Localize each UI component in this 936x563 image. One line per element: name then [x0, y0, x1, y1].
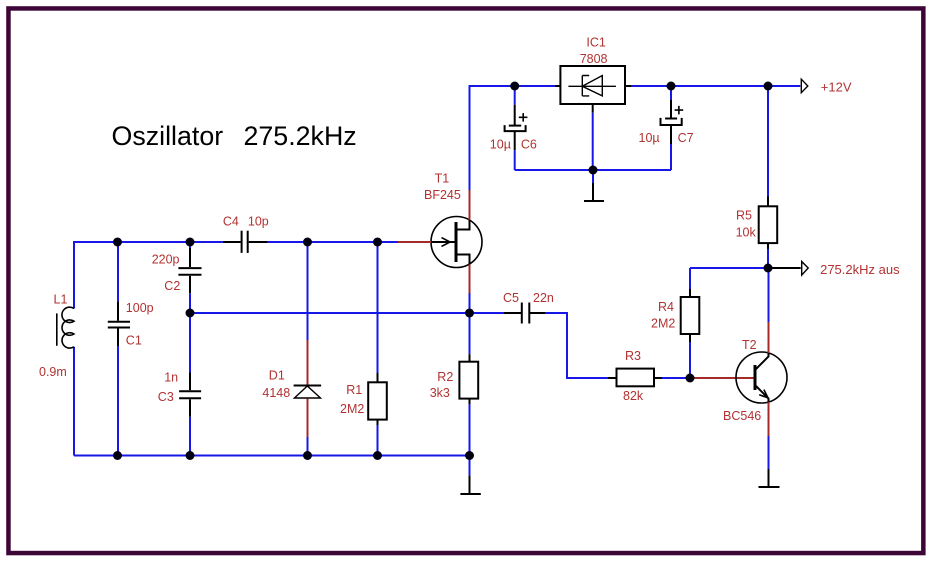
svg-text:10p: 10p [248, 215, 269, 229]
junction node C2 top [186, 238, 195, 247]
wire bottom rail [74, 455, 470, 457]
junction node R1 top [373, 238, 382, 247]
junction node C3 bottom [186, 451, 195, 460]
svg-text:D1: D1 [269, 369, 285, 383]
svg-text:L1: L1 [54, 293, 68, 307]
wire C6 C7 bottom rail [515, 169, 671, 171]
diode D1 [262, 242, 321, 456]
svg-text:BF245: BF245 [424, 188, 461, 202]
svg-text:T1: T1 [435, 172, 450, 186]
svg-text:2M2: 2M2 [340, 402, 364, 416]
svg-text:T2: T2 [742, 338, 757, 352]
capacitor C6 [490, 86, 537, 170]
svg-text:2M2: 2M2 [651, 317, 675, 331]
svg-text:R5: R5 [736, 208, 752, 222]
svg-text:R2: R2 [437, 370, 453, 384]
svg-text:BC546: BC546 [723, 409, 761, 423]
capacitor C7 [639, 86, 694, 170]
svg-text:C1: C1 [126, 334, 142, 348]
junction node IC1 ground [589, 166, 598, 175]
junction node C6 top [510, 82, 519, 91]
wire top supply rail [631, 85, 800, 87]
ground below R2 [460, 456, 480, 495]
svg-text:C6: C6 [521, 137, 537, 151]
svg-text:Oszillator: Oszillator [112, 121, 224, 151]
svg-text:C4: C4 [223, 215, 239, 229]
junction node D1 top [303, 238, 312, 247]
wire top rail right of C4 [268, 241, 398, 243]
ground below IC1 [584, 170, 604, 201]
svg-text:22n: 22n [533, 291, 554, 305]
junction node R1 bottom [373, 451, 382, 460]
svg-text:10µ: 10µ [639, 131, 660, 145]
transistor T2 BC546 [723, 322, 787, 436]
capacitor C2 [152, 242, 202, 313]
svg-text:IC1: IC1 [586, 35, 606, 49]
capacitor C3 [158, 313, 201, 456]
svg-text:0.9m: 0.9m [39, 365, 67, 379]
wire T1 source to mid rail [469, 293, 471, 313]
junction node T2 base [686, 374, 695, 383]
wire IC1 center pin down [592, 113, 594, 170]
junction node T1 source [465, 309, 474, 318]
wire T1 drain to top rail [470, 86, 556, 190]
junction node C2 bottom [186, 309, 195, 318]
resistor R1 [340, 242, 387, 456]
wire left rail top segment [74, 242, 223, 456]
svg-text:7808: 7808 [580, 52, 608, 66]
resistor R3 [608, 349, 690, 403]
svg-text:+12V: +12V [821, 79, 852, 94]
junction node C1 top [113, 238, 122, 247]
junction node R2 bottom [465, 451, 474, 460]
svg-text:C5: C5 [503, 291, 519, 305]
svg-text:C7: C7 [678, 131, 694, 145]
junction node R5 top [764, 82, 773, 91]
svg-text:4148: 4148 [262, 386, 290, 400]
svg-text:275.2kHz aus: 275.2kHz aus [820, 262, 900, 277]
svg-text:220p: 220p [152, 253, 180, 267]
junction node output [764, 264, 773, 273]
ground below T2 [759, 436, 780, 487]
capacitor C1 [108, 242, 154, 456]
svg-text:10µ: 10µ [490, 137, 511, 151]
svg-text:100p: 100p [126, 301, 154, 315]
svg-text:C2: C2 [164, 279, 180, 293]
voltage regulator IC1 7808 [555, 35, 631, 112]
wire mid rail [190, 313, 608, 378]
resistor R5 [736, 86, 778, 268]
275.2kHz aus output flag [768, 262, 900, 278]
svg-text:R3: R3 [625, 349, 641, 363]
svg-text:275.2kHz: 275.2kHz [244, 121, 357, 151]
+12V output flag [801, 79, 852, 94]
junction node D1 bottom [303, 451, 312, 460]
wire node to T2 base [690, 377, 755, 379]
transistor T1 BF245 [398, 172, 482, 293]
title text [112, 121, 357, 151]
svg-text:1n: 1n [164, 370, 178, 384]
svg-text:10k: 10k [736, 226, 757, 240]
capacitor C4 [223, 215, 269, 253]
resistor R4 [651, 268, 699, 378]
resistor R2 [430, 313, 478, 456]
inductor L1 [39, 293, 74, 379]
svg-text:82k: 82k [623, 389, 644, 403]
svg-text:R4: R4 [658, 300, 674, 314]
svg-text:C3: C3 [158, 390, 174, 404]
junction node C7 top [667, 82, 676, 91]
wire output node loop to R4 [690, 267, 768, 269]
junction node C1 bottom [113, 451, 122, 460]
svg-text:3k3: 3k3 [430, 386, 450, 400]
svg-text:R1: R1 [346, 383, 362, 397]
capacitor C5 [470, 291, 554, 324]
wire T2 collector to output node [768, 268, 770, 322]
